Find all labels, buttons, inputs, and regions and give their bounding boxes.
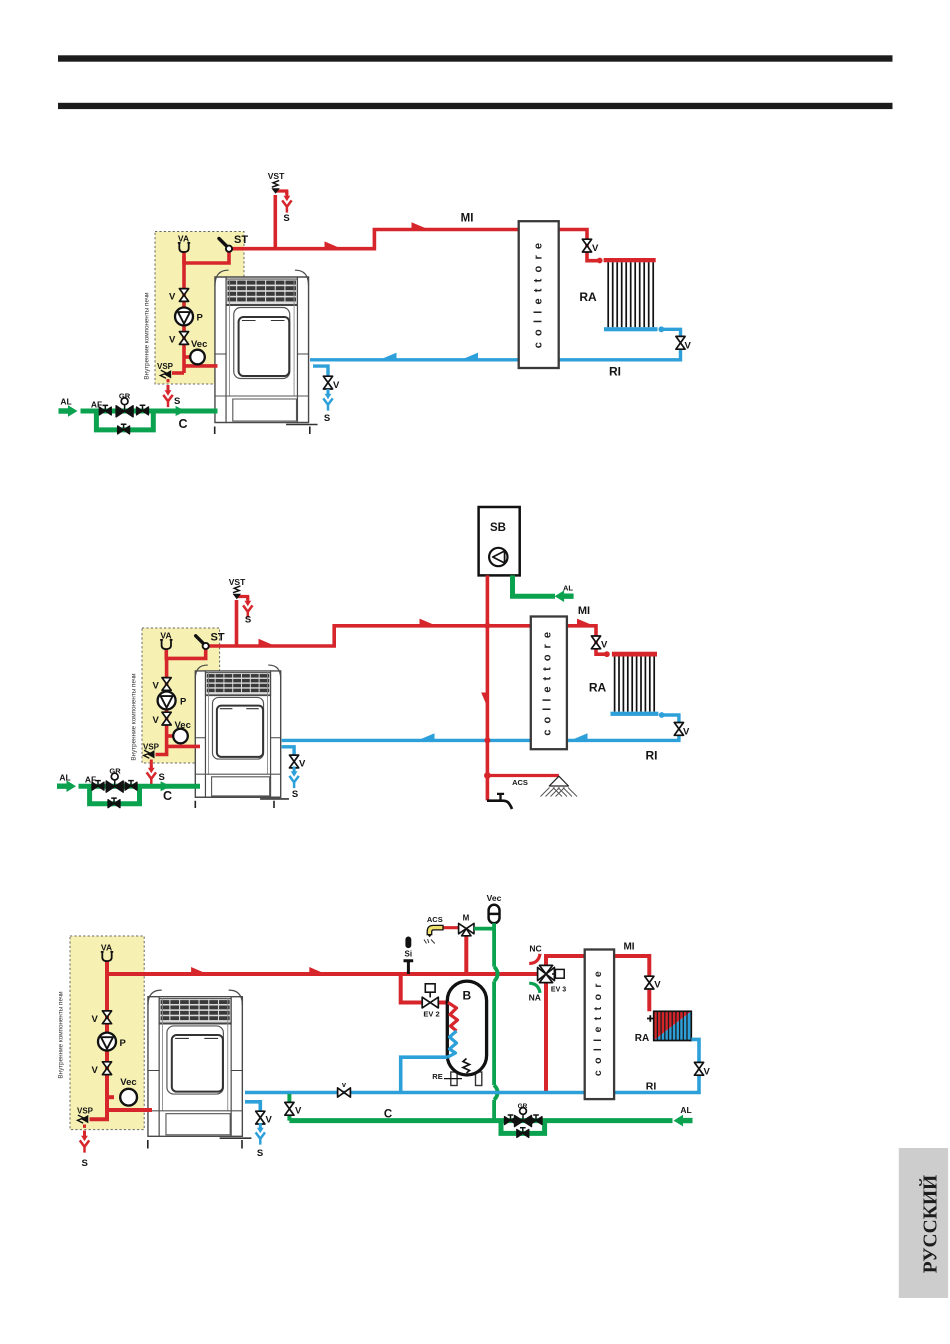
shut-off valve AF xyxy=(92,781,104,791)
valve V above pump xyxy=(102,1011,111,1024)
flow arrow on C xyxy=(161,781,171,791)
safety valve VSP xyxy=(78,1115,89,1123)
wire: tee to stove xyxy=(167,745,200,749)
svg-text:V: V xyxy=(92,1014,99,1025)
shut-off valve xyxy=(505,1115,517,1125)
svg-text:Si: Si xyxy=(405,950,413,959)
wire: VSP branch xyxy=(172,371,184,375)
wire: EV3 down to RI xyxy=(544,980,548,1093)
wire: SB riser xyxy=(486,575,490,800)
green filling line xyxy=(289,1121,672,1134)
svg-text:V: V xyxy=(169,292,176,303)
valve V on stove drain xyxy=(256,1111,265,1124)
wire: VST discharge elbow xyxy=(237,597,248,600)
blue return pipes xyxy=(310,329,681,376)
svg-text:S: S xyxy=(257,1148,263,1159)
valve v on RI near stove xyxy=(338,1088,351,1097)
svg-text:MI: MI xyxy=(578,605,590,617)
shut-off valve xyxy=(137,405,149,415)
inlet arrow AL xyxy=(674,1115,693,1127)
electric heater RE xyxy=(463,1059,470,1074)
stove drain funnel xyxy=(323,389,332,411)
bypass valve xyxy=(108,798,120,808)
internal components box (yellow) xyxy=(155,232,244,385)
flow arrow on RI xyxy=(382,353,397,359)
wire: column down to tee xyxy=(184,351,218,373)
wire: tee to stove xyxy=(107,1108,152,1112)
wire: tap to M valve xyxy=(443,926,460,929)
air valve VA xyxy=(101,952,113,962)
bypass valve xyxy=(118,424,130,434)
valve V on stove drain xyxy=(290,755,299,768)
collettore manifold xyxy=(585,950,614,1100)
wire: collettore to radiator xyxy=(559,230,599,261)
tap ACS xyxy=(487,801,512,809)
svg-text:Vec: Vec xyxy=(191,339,207,350)
svg-text:NA: NA xyxy=(529,993,541,1003)
header rule 1 xyxy=(58,55,893,61)
svg-text:RA: RA xyxy=(635,1033,649,1044)
flow arrow on RI xyxy=(420,733,435,739)
valve V on radiator return xyxy=(694,1062,703,1075)
VST drain funnel xyxy=(243,596,252,618)
dimension ticks xyxy=(215,427,310,435)
wire: EV3 top to collettore xyxy=(546,956,585,968)
pressure reducer GR xyxy=(106,773,123,792)
svg-text:NC: NC xyxy=(529,944,541,954)
svg-text:V: V xyxy=(704,1067,711,1078)
wire: VA riser xyxy=(105,961,109,975)
svg-text:MI: MI xyxy=(461,213,474,225)
svg-text:Внутренние компоненты печи: Внутренние компоненты печи xyxy=(144,292,151,380)
air valve VA xyxy=(178,243,190,253)
valve V on stove drain xyxy=(323,376,332,389)
node: riser crosses RI xyxy=(484,737,490,743)
wire: bypass loop xyxy=(90,786,140,804)
expansion vessel Vec xyxy=(173,729,188,744)
wire: VST discharge elbow xyxy=(276,191,287,195)
red pipes xyxy=(151,597,605,768)
node: junction with SB riser xyxy=(484,623,490,629)
pump P xyxy=(158,692,176,710)
pump P xyxy=(98,1033,116,1051)
svg-text:V: V xyxy=(601,640,608,651)
svg-text:S: S xyxy=(82,1158,88,1169)
VST drain funnel xyxy=(282,191,291,213)
svg-text:AL: AL xyxy=(680,1105,691,1115)
wire: AL inlet line xyxy=(81,409,218,414)
valve V below pump xyxy=(102,1062,111,1075)
plus mark xyxy=(647,1015,654,1022)
svg-text:EV 2: EV 2 xyxy=(423,1010,439,1019)
wire: VA riser and jog to ST xyxy=(184,249,229,263)
wire: VA riser jog to ST xyxy=(166,646,205,658)
stove xyxy=(195,665,288,799)
svg-text:Внутренние компоненты печи: Внутренние компоненты печи xyxy=(58,991,65,1079)
svg-text:VA: VA xyxy=(101,943,112,953)
wire: VST riser xyxy=(273,195,277,249)
coil in tank (red half) xyxy=(448,1003,458,1032)
svg-text:GR: GR xyxy=(109,767,121,776)
wire: Vec stub xyxy=(107,1095,114,1099)
node: radiator inlet xyxy=(597,258,603,264)
flow arrow on MI xyxy=(325,241,340,247)
svg-text:AL: AL xyxy=(59,773,70,783)
wire: drain stub xyxy=(282,747,294,756)
wire: pump column xyxy=(105,974,109,1110)
svg-text:B: B xyxy=(462,989,471,1003)
svg-text:V: V xyxy=(153,681,160,692)
flow arrow on supply xyxy=(259,639,274,645)
wire: bypass loop xyxy=(96,411,153,430)
node: radiator outlet xyxy=(659,712,665,718)
wire: main supply from ST to collettore xyxy=(229,230,519,249)
flow arrow on supply xyxy=(420,619,435,625)
svg-text:V: V xyxy=(592,243,599,254)
svg-text:P: P xyxy=(120,1038,127,1049)
VSP drain funnel xyxy=(147,763,156,785)
VSP drain funnel xyxy=(163,386,172,408)
flow arrow on supply xyxy=(309,967,324,973)
probe SI xyxy=(405,937,411,949)
thermostat ST xyxy=(196,636,205,645)
wire: green expansion riser with hops xyxy=(494,923,498,1120)
russian tab xyxy=(899,1148,948,1298)
svg-text:C: C xyxy=(384,1109,392,1121)
valve V on radiator return xyxy=(676,336,685,349)
svg-text:VST: VST xyxy=(268,171,285,181)
dimension ticks xyxy=(195,801,274,808)
flow arrow on MI xyxy=(577,619,592,625)
pressure reducer GR xyxy=(515,1108,532,1127)
safety valve VST xyxy=(233,586,241,599)
svg-text:SB: SB xyxy=(490,522,506,534)
svg-text:Vec: Vec xyxy=(487,893,502,903)
svg-text:ST: ST xyxy=(234,234,248,246)
svg-text:EV 3: EV 3 xyxy=(551,987,566,994)
svg-text:GR: GR xyxy=(119,392,131,401)
thermostat ST xyxy=(219,239,228,248)
wire: VSP branch xyxy=(156,740,167,755)
wire: M to expansion line (green) xyxy=(474,927,494,931)
svg-text:P: P xyxy=(180,697,187,708)
valve V above pump xyxy=(179,289,188,302)
safety valve VSP xyxy=(160,370,171,378)
wire: VSP drain dashes xyxy=(83,1125,86,1134)
valve V on radiator supply xyxy=(645,976,654,989)
svg-text:Vec: Vec xyxy=(120,1077,136,1088)
green filling line xyxy=(81,411,218,430)
svg-text:P: P xyxy=(197,313,204,324)
valve V below pump xyxy=(179,332,188,345)
coil in tank (blue half) xyxy=(448,1031,457,1057)
green filling line xyxy=(79,786,201,804)
wire: ACS branch xyxy=(487,774,559,777)
svg-text:RA: RA xyxy=(589,681,607,695)
svg-text:V: V xyxy=(169,335,176,346)
valve V below pump xyxy=(162,712,171,725)
valve V above pump xyxy=(162,678,171,691)
svg-text:VST: VST xyxy=(229,577,246,587)
expansion vessel Vec xyxy=(190,350,205,365)
inlet arrow AL to SB xyxy=(555,590,574,602)
wire: main supply to collettore xyxy=(206,626,531,646)
blue return pipes xyxy=(282,715,679,756)
wire: valve to RI and stove xyxy=(245,1075,699,1092)
wire: valve to RI and stove xyxy=(282,735,679,740)
discharge symbol xyxy=(549,776,568,786)
header rule 2 xyxy=(58,103,893,109)
svg-text:РУССКИЙ: РУССКИЙ xyxy=(920,1175,942,1273)
svg-text:RI: RI xyxy=(646,1081,657,1093)
svg-text:ST: ST xyxy=(211,632,225,644)
wire: tank outlet to RI (blue) xyxy=(401,1057,448,1092)
safety valve VST xyxy=(271,180,279,193)
wire: collettore to radiator xyxy=(614,956,649,977)
svg-text:C: C xyxy=(163,789,172,803)
wire: drain stub xyxy=(313,366,328,376)
svg-text:collettore: collettore xyxy=(542,626,554,736)
svg-text:M: M xyxy=(463,914,470,923)
svg-text:RA: RA xyxy=(579,290,597,304)
inlet arrow AL xyxy=(57,780,76,792)
flow arrow on C line xyxy=(176,406,186,416)
svg-text:RI: RI xyxy=(646,749,658,763)
svg-text:S: S xyxy=(292,789,298,800)
red pipes xyxy=(85,928,650,1133)
bypass valve xyxy=(517,1128,529,1138)
wire: VST riser xyxy=(235,600,239,646)
wire: valve to RI line and back to stove xyxy=(310,349,681,360)
boiler SB xyxy=(479,507,520,575)
wire: C line xyxy=(289,1118,672,1123)
svg-text:AL: AL xyxy=(60,397,71,407)
wire: drain stub xyxy=(245,1102,260,1112)
valve V on radiator return xyxy=(674,723,683,736)
svg-text:ACS: ACS xyxy=(512,778,528,787)
svg-text:GR: GR xyxy=(518,1103,528,1110)
wire: bypass loop xyxy=(501,1121,545,1134)
wire: Vec stub xyxy=(167,734,174,738)
internal components box (yellow) xyxy=(70,936,144,1130)
svg-text:V: V xyxy=(92,1065,99,1076)
air valve VA xyxy=(160,640,172,650)
svg-text:V: V xyxy=(654,980,661,991)
stove drain funnel xyxy=(289,767,298,789)
svg-text:AF: AF xyxy=(85,775,96,785)
svg-text:V: V xyxy=(683,727,690,738)
flow arrow on MI xyxy=(412,222,427,228)
radiator RA xyxy=(604,258,658,331)
wire: M valve drop xyxy=(464,935,468,974)
svg-text:RI: RI xyxy=(609,365,621,379)
valve V on radiator supply xyxy=(582,239,591,252)
pressure reducer GR xyxy=(116,398,133,417)
svg-text:S: S xyxy=(174,396,180,407)
wire: EV2 branch xyxy=(401,974,422,1003)
inlet arrow AL xyxy=(59,405,78,417)
radiator RA xyxy=(611,652,659,716)
wire: main supply line xyxy=(107,972,539,976)
svg-text:S: S xyxy=(324,413,330,424)
svg-text:V: V xyxy=(299,759,306,770)
NC port arc xyxy=(529,954,540,964)
wire: radiator to valve xyxy=(691,1039,699,1062)
svg-text:AL: AL xyxy=(563,584,573,593)
svg-text:collettore: collettore xyxy=(533,237,545,349)
electrovalve EV2 xyxy=(425,984,435,992)
expansion vessel Vec xyxy=(120,1089,137,1106)
flow arrow down on riser xyxy=(481,693,487,708)
svg-text:S: S xyxy=(159,772,165,783)
radiator RA (mixed) xyxy=(654,1011,692,1040)
svg-text:RE: RE xyxy=(432,1072,442,1081)
svg-text:V: V xyxy=(295,1106,302,1117)
svg-text:VA: VA xyxy=(178,234,189,244)
svg-text:VSP: VSP xyxy=(143,743,160,752)
dimension ticks xyxy=(148,1140,242,1149)
wire: VSP branch xyxy=(90,1110,108,1119)
wire: collettore to radiator xyxy=(567,626,605,654)
wire: AL inlet line xyxy=(79,784,201,789)
wire: VSP drain dashes xyxy=(167,379,170,388)
svg-text:VSP: VSP xyxy=(77,1107,94,1116)
electrovalve EV3 (3-way) xyxy=(538,965,555,982)
internal components box (yellow) xyxy=(142,628,220,763)
stove drain funnel xyxy=(256,1123,265,1145)
collettore manifold xyxy=(531,617,567,750)
svg-text:C: C xyxy=(178,417,187,431)
flow arrow on RI xyxy=(464,353,479,359)
shut-off valve xyxy=(125,781,137,791)
collettore manifold xyxy=(519,221,559,368)
svg-text:V: V xyxy=(685,341,692,352)
svg-text:V: V xyxy=(153,715,160,726)
wire: radiator to valve drop xyxy=(663,329,681,336)
flow arrow on supply xyxy=(191,967,206,973)
svg-text:Vec: Vec xyxy=(175,720,191,731)
wire: pump column xyxy=(165,658,169,740)
wire: Vec stub xyxy=(184,355,190,359)
svg-text:collettore: collettore xyxy=(592,965,604,1076)
NA port arc xyxy=(529,983,540,993)
flow arrow on RI xyxy=(573,733,588,739)
node: radiator outlet xyxy=(658,326,664,332)
shut-off valve xyxy=(530,1115,542,1125)
node: ACS branch xyxy=(484,772,491,779)
stove xyxy=(148,990,251,1138)
svg-text:V: V xyxy=(333,380,340,391)
svg-text:MI: MI xyxy=(623,942,634,953)
wire: fill stub valve (green) xyxy=(287,1094,291,1104)
node: radiator inlet xyxy=(604,651,610,657)
VSP drain funnel xyxy=(80,1131,89,1153)
svg-text:ACS: ACS xyxy=(427,915,443,924)
shut-off valve AF xyxy=(99,405,111,415)
svg-text:VA: VA xyxy=(160,631,171,641)
safety valve VSP xyxy=(144,750,155,758)
stove (boiler-stove) xyxy=(215,270,317,424)
svg-text:AF: AF xyxy=(91,400,102,410)
wire: radiator to valve xyxy=(663,715,679,723)
wire: SB fill line (green) xyxy=(513,575,556,596)
valve V on radiator supply xyxy=(591,636,600,649)
svg-text:S: S xyxy=(245,615,251,626)
wire: VSP drain dashes xyxy=(150,760,153,768)
svg-text:S: S xyxy=(283,213,289,224)
wire: EV2 to tank xyxy=(438,1001,448,1005)
svg-text:VSP: VSP xyxy=(157,362,174,371)
wire: pump column xyxy=(182,256,186,351)
buffer tank B xyxy=(451,1072,457,1086)
svg-text:V: V xyxy=(266,1115,273,1126)
svg-text:Внутренние компоненты печи: Внутренние компоненты печи xyxy=(131,673,138,761)
blue return pipes xyxy=(245,1039,699,1111)
red flow pipes MI side xyxy=(168,191,599,388)
pump P xyxy=(175,308,193,326)
